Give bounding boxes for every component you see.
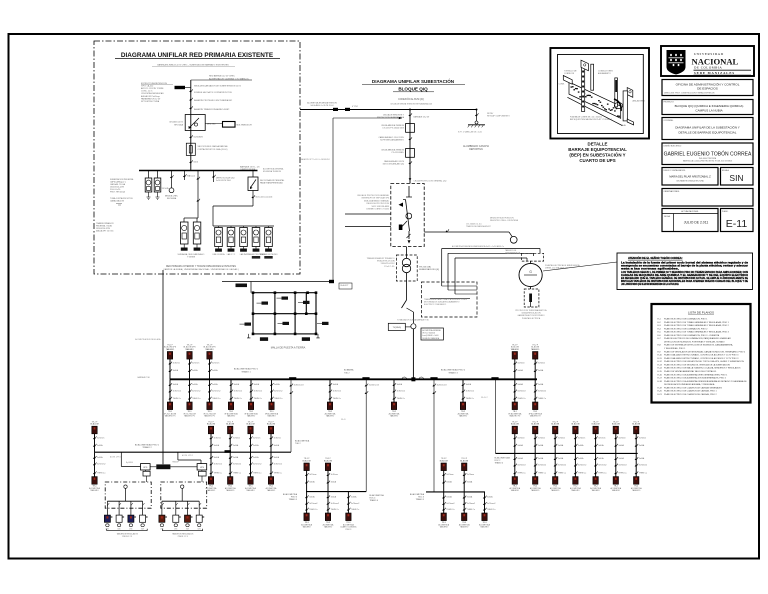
svg-text:MATRICULA CL205-57968 TEL 887: MATRICULA CL205-57968 TEL 887 94 79 CEL … (683, 159, 732, 162)
svg-text:GABINETE AUTOSOPORTADO: GABINETE AUTOSOPORTADO (517, 314, 545, 317)
feeder TGD piso1 drop 5 at x=251 (244, 379, 262, 417)
svg-text:3F+N: 3F+N (341, 419, 346, 421)
feeder TGD piso2 drop 1 at x=330 (325, 379, 341, 417)
svg-text:3x2/0 AWG: 3x2/0 AWG (193, 135, 203, 138)
UPS 2 box (197, 464, 207, 470)
title RED PRIMARIA EXISTENTE (115, 52, 280, 67)
svg-text:3x70mm2: 3x70mm2 (253, 464, 261, 466)
bus1 tap marks (289, 377, 296, 380)
svg-text:PLANO ELECTRICO DE TOMAS GENER: PLANO ELECTRICO DE TOMAS GENERALES Y REG… (664, 324, 730, 327)
svg-text:3x70mm2: 3x70mm2 (192, 391, 200, 393)
feeder TGD2 column 3 at x=230.2 (225, 421, 241, 492)
svg-text:DE REGULACION UNIDADES AISLANA: DE REGULACION UNIDADES AISLANA, Y REGULA… (664, 383, 715, 386)
svg-text:3x70mm2: 3x70mm2 (351, 503, 359, 505)
transfer wires inside TGD box (442, 285, 477, 287)
svg-text:TABLERO: TABLERO (227, 415, 236, 418)
regulated panel UPS L-2 (116, 501, 124, 530)
svg-text:THHN Cu: THHN Cu (234, 398, 242, 400)
right-side feeder labels (194, 85, 242, 112)
bus for transformer group 2 (213, 205, 253, 207)
svg-text:TR-3 P: TR-3 P (304, 458, 310, 460)
wire: main MV feeder drop (box B) (190, 80, 192, 171)
svg-text:CORTACIRCUITOS 100A (15 kV): CORTACIRCUITOS 100A (15 kV) (198, 148, 228, 151)
svg-text:3x60A: 3x60A (212, 383, 218, 386)
feeder ROC2 lower column 3 at x=555.2 (550, 421, 566, 492)
recloser box (NORMA ESSA) (169, 115, 205, 131)
UPS input boxes (121, 452, 201, 466)
svg-text:3x60A: 3x60A (578, 444, 584, 447)
svg-text:3x60A: 3x60A (466, 383, 472, 386)
svg-text:3x70mm: 3x70mm (578, 437, 586, 439)
svg-text:kWh: kWh (186, 528, 189, 530)
svg-text:PLANO ELECTRICO DE UBICACION D: PLANO ELECTRICO DE UBICACION DEL TOPOLOG… (664, 360, 744, 363)
wire to metering CT circle (424, 231, 509, 233)
title block: proyecto box (662, 100, 753, 115)
svg-text:RED PRIMARIA INTERIOR Y TRANSF: RED PRIMARIA INTERIOR Y TRANSFORMADORES … (166, 265, 236, 268)
svg-text:TABLERO: TABLERO (324, 526, 333, 529)
UN crest (667, 50, 686, 75)
svg-text:OBSERVACIONES:: OBSERVACIONES: (664, 190, 680, 193)
svg-text:TR-1 P: TR-1 P (187, 344, 193, 346)
title block: diseno box (662, 143, 753, 165)
transformer T-EX1 (145, 171, 152, 200)
transformer T-EX2 (154, 171, 161, 200)
switchgear left wires (345, 213, 391, 215)
svg-text:TRAMO 2: TRAMO 2 (142, 446, 152, 449)
svg-text:3x60A: 3x60A (253, 456, 259, 459)
svg-text:LAB 1 Y 2: LAB 1 Y 2 (227, 253, 235, 256)
svg-text:PLANO ELECTRICO DE MALLA Y AND: PLANO ELECTRICO DE MALLA Y ANDEN, LOCALI… (664, 367, 741, 370)
svg-text:PLANTA ELECTRICA: PLANTA ELECTRICA (522, 317, 541, 320)
svg-text:THHN Cu: THHN Cu (578, 472, 586, 474)
svg-text:TR-2 P: TR-2 P (633, 421, 639, 423)
svg-text:CONTIENE:: CONTIENE: (664, 120, 674, 122)
svg-text:TABLERO: TABLERO (460, 526, 469, 529)
svg-text:DETALLE: DETALLE (588, 142, 608, 147)
switchgear dashed cell (391, 184, 424, 247)
svg-text:PLANO ELECTRICO DE SEGUNDOS, V: PLANO ELECTRICO DE SEGUNDOS, VENTILAS DE… (664, 363, 730, 366)
bracket under UPS R (162, 529, 202, 538)
regulated panel UPS R-1 (159, 501, 167, 530)
svg-text:PLANO DE VENTAS AMBIENTAL TALL: PLANO DE VENTAS AMBIENTAL TALLS DEL PORT… (664, 370, 717, 373)
svg-text:kWh: kWh (129, 528, 132, 530)
svg-text:3x70mm: 3x70mm (192, 363, 200, 365)
svg-text:TR-2 P: TR-2 P (613, 421, 619, 423)
svg-text:TGD 2: TGD 2 (295, 443, 301, 445)
svg-text:TRANSFERENCIA AUTOMATICA INTER: TRANSFERENCIA AUTOMATICA INTERRUPTORES (424, 298, 468, 301)
feeder TGD piso2 drop 2 at x=394 (389, 379, 405, 417)
feeder ROC2 lower column 5 at x=595.6 (590, 421, 606, 492)
bus2 ROC2 tramo 4 (496, 452, 638, 454)
svg-text:TABLERO: TABLERO (511, 489, 520, 492)
svg-text:3x60A: 3x60A (173, 383, 179, 386)
svg-text:THHN Cu: THHN Cu (254, 398, 262, 400)
svg-text:PLANO DIALIZADO ESTRUCTURADO,: PLANO DIALIZADO ESTRUCTURADO, CONTROL DE… (664, 357, 739, 360)
svg-text:TABLERO: TABLERO (326, 415, 335, 418)
svg-text:BL/ACOMETIDA: BL/ACOMETIDA (295, 440, 310, 443)
svg-text:3x60A: 3x60A (331, 481, 337, 484)
svg-text:TRAFOS DE MEDIDA EN BT: TRAFOS DE MEDIDA EN BT (466, 225, 492, 228)
svg-text:PISO 3: PISO 3 (346, 529, 352, 531)
svg-text:TABLERO P2: TABLERO P2 (530, 415, 541, 418)
svg-text:TABLERO: TABLERO (571, 489, 580, 492)
svg-text:ACOM. UPS 2: ACOM. UPS 2 (182, 454, 193, 457)
svg-text:SUBESTACION QIQ: SUBESTACION QIQ (419, 268, 439, 271)
svg-text:TRANSF BIOTECNO: TRANSF BIOTECNO (260, 253, 278, 256)
transformer group2 unit 4 (TRANSF PROCESOS) (247, 226, 267, 259)
svg-text:SUB ALBA, SUB CANCHAS 1: SUB ALBA, SUB CANCHAS 1 (178, 253, 206, 256)
svg-text:PLANO ELECTRICO DE CUADROS DE: PLANO ELECTRICO DE CUADROS DE CARGAS, PI… (664, 390, 717, 393)
svg-text:TABLERO: TABLERO (440, 526, 449, 529)
title block: dibujo box (662, 168, 718, 186)
svg-text:UPS: UPS (143, 467, 148, 469)
drop labels (212, 171, 235, 183)
svg-text:3x70mm: 3x70mm (598, 437, 606, 439)
svg-text:CELDA DE MEDIA TENSION ENTRADA: CELDA DE MEDIA TENSION ENTRADA/SALIDA (390, 103, 432, 106)
svg-text:BL/ACOMETIDA: BL/ACOMETIDA (283, 493, 298, 496)
svg-text:PLANTA ELECTRICA DE EMERGENCIA: PLANTA ELECTRICA DE EMERGENCIA (545, 264, 580, 267)
svg-text:3x70mm2: 3x70mm2 (212, 391, 220, 393)
svg-text:3x70mm: 3x70mm (253, 437, 261, 439)
svg-text:3x60A: 3x60A (274, 444, 280, 447)
transformer labels (367, 257, 440, 271)
svg-text:ACOMETIDA GENERAL: ACOMETIDA GENERAL (422, 329, 441, 332)
svg-text:PLANO ELECTRICO DE TOMAS GENER: PLANO ELECTRICO DE TOMAS GENERALES Y REG… (664, 321, 730, 324)
riser red primaria to UPS (162, 270, 164, 464)
svg-text:SF6 630A: SF6 630A (174, 123, 184, 126)
UPS bypass small boxes (143, 470, 150, 482)
svg-text:DIAGRAMA UNIFILAR SUBESTACIÓN: DIAGRAMA UNIFILAR SUBESTACIÓN (372, 77, 455, 84)
svg-text:3x70mm2: 3x70mm2 (331, 503, 339, 505)
svg-text:ELECTRICO Y MECANICO: ELECTRICO Y MECANICO (424, 303, 447, 306)
svg-text:kWh: kWh (106, 528, 109, 530)
wire: MV acometida from red primaria to QIQ (300, 109, 477, 111)
svg-text:AISLAMIENTO: AISLAMIENTO (598, 72, 611, 75)
svg-text:3x60A: 3x60A (274, 456, 280, 459)
regulated panel UPS L-1 (104, 501, 112, 530)
branch: alumbrado cancha deportiva (458, 110, 510, 152)
transfer tablero dashed box (521, 253, 543, 261)
svg-text:PLANO DIALIZADO ESTRUCTURADO,: PLANO DIALIZADO ESTRUCTURADO, CONTROL DE… (664, 354, 739, 357)
feeder ROC2 upper column 1 at x=514.8 (508, 344, 526, 417)
right sectionalizer box (248, 171, 284, 207)
svg-text:PISOS 1 2 3: PISOS 1 2 3 (122, 536, 132, 538)
svg-text:3x60A: 3x60A (467, 481, 473, 484)
feeder ROC3 column 1 at x=443.7 (438, 458, 454, 528)
svg-text:PLANO ELECTRICO DE ILUMINACION: PLANO ELECTRICO DE ILUMINACION, PISO 2 (664, 327, 708, 330)
svg-text:THHN Cu: THHN Cu (331, 509, 339, 511)
svg-text:15kV 133% AISLAM. QIQ: 15kV 133% AISLAM. QIQ (382, 163, 404, 166)
svg-text:TRAMO 5: TRAMO 5 (416, 498, 424, 501)
svg-text:ACTUALIZACIONES:: ACTUALIZACIONES: (681, 210, 699, 213)
svg-text:BAJANTE PROTEGIDO EN TUBERIA I: BAJANTE PROTEGIDO EN TUBERIA IMC (194, 99, 233, 102)
svg-text:3x70mm: 3x70mm (309, 474, 317, 476)
svg-text:Y SEGURIDAD, PISO 1: Y SEGURIDAD, PISO 1 (664, 347, 686, 350)
svg-text:3x60A: 3x60A (173, 369, 179, 372)
svg-text:TABLERO: TABLERO (207, 489, 216, 492)
svg-text:TABLERO: TABLERO (246, 489, 255, 492)
svg-text:3x70mm: 3x70mm (558, 437, 566, 439)
svg-text:THHN Cu: THHN Cu (214, 472, 222, 474)
dashed tableros regulados box UPS R (161, 482, 207, 508)
svg-text:THHN Cu: THHN Cu (538, 472, 546, 474)
svg-text:3x1/0 XLPE 15kV: 3x1/0 XLPE 15kV (216, 180, 232, 182)
BEP labels (559, 71, 646, 128)
svg-text:3x60A: 3x60A (558, 457, 564, 460)
svg-text:MED. IND: MED. IND (207, 124, 216, 126)
svg-text:3x800A REGULACION: 3x800A REGULACION (521, 312, 541, 315)
svg-text:CELDA PROTECCION GENERAL QIQ: CELDA PROTECCION GENERAL QIQ (414, 180, 447, 183)
svg-text:3x70mm2: 3x70mm2 (254, 391, 262, 393)
svg-text:kWh: kWh (160, 528, 163, 530)
svg-text:SEDE MANIZALES: SEDE MANIZALES (694, 71, 735, 75)
svg-text:THHN Cu: THHN Cu (446, 509, 454, 511)
svg-text:kWh: kWh (141, 528, 144, 530)
svg-text:3x70mm2: 3x70mm2 (538, 465, 546, 467)
svg-text:3x70mm: 3x70mm (618, 437, 626, 439)
svg-text:3x60A: 3x60A (558, 444, 564, 447)
svg-text:3x70mm2: 3x70mm2 (517, 391, 525, 393)
svg-text:3x70mm2: 3x70mm2 (173, 391, 181, 393)
svg-text:3x70mm: 3x70mm (517, 437, 525, 439)
feeder ROC2 lower column 4 at x=575.4 (570, 421, 586, 492)
UPS interconnect labels (110, 454, 193, 459)
svg-text:TR-1 P: TR-1 P (208, 421, 214, 423)
feeder TGD2 column 5 at x=271 (266, 421, 282, 492)
bonding run to malla (222, 281, 333, 283)
regulated panel UPS R-4 (196, 501, 204, 530)
svg-text:GABRIEL EUGENIO TOBÓN CORREA: GABRIEL EUGENIO TOBÓN CORREA (664, 151, 752, 158)
feeder ROC2 lower column 7 at x=636.2 (631, 421, 647, 492)
svg-text:3x60A: 3x60A (233, 444, 239, 447)
svg-text:TRAMO 5: TRAMO 5 (289, 498, 297, 501)
svg-text:UPS: UPS (200, 467, 205, 469)
svg-text:TRAMO 6: TRAMO 6 (370, 499, 378, 502)
disconnect ticks on feeder (191, 89, 193, 92)
svg-text:PLANO ELECTRICO DE ALIMENTACIO: PLANO ELECTRICO DE ALIMENTACION SUBGENER… (664, 377, 727, 380)
svg-text:RETILAP CUMPLIMIENTO: RETILAP CUMPLIMIENTO (487, 115, 510, 118)
svg-text:3x60A: 3x60A (234, 383, 240, 386)
svg-text:LOS LABORATORIOS QUE SE ESTAN: LOS LABORATORIOS QUE SE ESTAN MODERNIZAN… (621, 283, 679, 286)
BEP busbar isometric (563, 60, 633, 125)
svg-text:ACOMETIDA RED REGULADA: ACOMETIDA RED REGULADA (135, 338, 161, 341)
svg-text:TR-1 P: TR-1 P (92, 421, 98, 423)
svg-text:TABLERO: TABLERO (632, 489, 641, 492)
svg-text:TR-2 P: TR-2 P (532, 421, 538, 423)
svg-text:PARARRAYOS 12 kV: PARARRAYOS 12 kV (141, 97, 161, 100)
svg-text:3x60A: 3x60A (598, 444, 604, 447)
sub bus TGD2 (95, 451, 292, 453)
svg-text:3x70mm: 3x70mm (538, 437, 546, 439)
breaker inside switchgear (399, 186, 413, 244)
svg-text:TV(GND): TV(GND) (393, 327, 402, 329)
title block: fecha box (662, 209, 718, 232)
svg-text:MALLA DE PUESTA A TIERRA: MALLA DE PUESTA A TIERRA (271, 346, 306, 349)
svg-text:BARRAJE/LINEA 13,2 kV CHEC - S: BARRAJE/LINEA 13,2 kV CHEC - SUBESTACION… (157, 64, 229, 67)
svg-text:50/51 50N/51N ANSI: 50/51 50N/51N ANSI (371, 205, 389, 208)
svg-text:TIPO: LA-212: TIPO: LA-212 (141, 85, 154, 88)
title DIAGRAMA UNIFILAR SUBESTACION BLOQUE QIQ (362, 77, 465, 92)
svg-text:SEDA DESCARGADOR DE SOBRETENSI: SEDA DESCARGADOR DE SOBRETENSION 12 kV (194, 85, 242, 88)
lista de planos box (652, 304, 751, 403)
transformer group2 unit 2 (LAB 1 Y 2) (227, 226, 235, 256)
svg-text:S.P.T. 2 VARILLAS 5/8 x 2,4m: S.P.T. 2 VARILLAS 5/8 x 2,4m (458, 131, 482, 134)
svg-text:TABLEROS REGULADOS: TABLEROS REGULADOS (117, 532, 139, 535)
svg-text:3x60A: 3x60A (639, 444, 645, 447)
svg-text:PLANO ELECTRICO DE ILUMINACION: PLANO ELECTRICO DE ILUMINACION, PISO 1 (664, 318, 708, 321)
left bottom labels (96, 222, 114, 233)
svg-text:TABLERO: TABLERO (612, 489, 621, 492)
svg-text:JULIO DE 2.011: JULIO DE 2.011 (684, 221, 709, 225)
svg-text:TABLERO P1: TABLERO P1 (204, 415, 215, 418)
svg-text:3x70mm2: 3x70mm2 (487, 503, 495, 505)
svg-text:3x250 kcmil: 3x250 kcmil (369, 385, 380, 387)
svg-text:MEDIDOR MULTIFUNCION: MEDIDOR MULTIFUNCION (490, 218, 514, 220)
svg-text:TABLERO: TABLERO (551, 489, 560, 492)
bracket under UPS L (107, 529, 148, 538)
svg-text:TABLERO P1: TABLERO P1 (184, 415, 195, 418)
svg-text:REGISTRO CREG - FRONTERA: REGISTRO CREG - FRONTERA (490, 219, 519, 222)
svg-text:TABLERO: TABLERO (459, 415, 468, 418)
svg-text:3x60A: 3x60A (253, 444, 259, 447)
svg-text:4” PVC: 4” PVC (352, 106, 359, 108)
svg-text:3x70mm2: 3x70mm2 (466, 391, 474, 393)
regulated panel UPS L-3 (128, 501, 136, 530)
svg-text:CAMPUS NUBIA: CAMPUS NUBIA (240, 168, 256, 171)
svg-text:ESTRUCTURA RETENCION: ESTRUCTURA RETENCION (141, 82, 167, 85)
svg-text:TRANSF: TRANSF (172, 461, 179, 464)
svg-text:3x60A: 3x60A (467, 496, 473, 499)
feeder TGD piso1 column 1 at x=170 (164, 344, 181, 417)
malla riser (250, 282, 252, 293)
svg-text:BARRAJE 13,2 kV: BARRAJE 13,2 kV (414, 116, 430, 119)
svg-text:TR-3 P: TR-3 P (461, 458, 467, 460)
svg-text:3x70mm2: 3x70mm2 (578, 465, 586, 467)
svg-text:3x60A: 3x60A (487, 496, 493, 499)
metering cell box 2 (406, 149, 415, 158)
svg-text:TR-2 P: TR-2 P (552, 421, 558, 423)
svg-text:THHN Cu: THHN Cu (274, 472, 282, 474)
feeder TGD2 column 2 at x=211 (206, 421, 222, 492)
malla de puesta a tierra grid (240, 291, 329, 341)
svg-text:PARA TRANSFERENCIAS: PARA TRANSFERENCIAS (260, 182, 283, 185)
svg-text:3x70mm: 3x70mm (331, 474, 339, 476)
main QIQ feeder drop (409, 110, 411, 184)
svg-text:TABLERO: TABLERO (267, 489, 276, 492)
svg-text:TR-1 P: TR-1 P (227, 421, 233, 423)
svg-text:3x70mm2: 3x70mm2 (618, 465, 626, 467)
node: CONEXION AL BUS QIQ (390, 98, 432, 106)
svg-text:TR-1 P: TR-1 P (248, 421, 254, 423)
regulated panel UPS R-2 (173, 501, 181, 530)
svg-text:3x70mm: 3x70mm (214, 437, 222, 439)
svg-text:TR 225 kVA: TR 225 kVA (419, 266, 431, 269)
group1 label (283, 493, 298, 501)
svg-text:THHN Cu: THHN Cu (233, 472, 241, 474)
svg-text:3x1/0: 3x1/0 (193, 161, 198, 163)
logo text (692, 52, 752, 75)
svg-text:SIN: SIN (729, 173, 743, 183)
svg-text:TRANSFERENCIA: TRANSFERENCIA (505, 252, 521, 255)
BEP detail box frame (550, 48, 649, 139)
dashed boundary: DIAGRAMA UNIFILAR RED PRIMARIA EXISTENTE (94, 41, 300, 274)
CT metering circle (510, 236, 517, 243)
svg-text:BAJANTE TRANSICION AEREO-SUBT.: BAJANTE TRANSICION AEREO-SUBT. (194, 108, 230, 111)
feeder down to TGD bus (412, 329, 414, 379)
svg-text:PISOS 1 2 3: PISOS 1 2 3 (178, 536, 188, 538)
svg-text:3x60A: 3x60A (517, 383, 523, 386)
svg-text:3x60A: 3x60A (351, 495, 357, 498)
svg-text:3x70mm2: 3x70mm2 (517, 465, 525, 467)
svg-text:DISPARO LIBRE CT 300/5: DISPARO LIBRE CT 300/5 (366, 208, 389, 211)
svg-text:ACOM. UPS 1: ACOM. UPS 1 (110, 456, 121, 459)
transferencia black box (156, 464, 170, 469)
svg-text:TABLERO: TABLERO (591, 489, 600, 492)
svg-text:TABLERO: TABLERO (531, 489, 540, 492)
svg-text:TABLERO: TABLERO (90, 489, 99, 492)
svg-text:SECCION BUS CARGA PARCIAL: SECCION BUS CARGA PARCIAL (198, 145, 229, 148)
node: bus barra 13,2 kV label (209, 75, 250, 81)
svg-text:BL/ACOMETIDAS PISO 1: BL/ACOMETIDAS PISO 1 (234, 367, 259, 370)
svg-text:3x60A: 3x60A (254, 383, 260, 386)
drop kiosko (183, 171, 195, 181)
feeder ROC2 lower column 1 at x=514.8 (509, 421, 525, 492)
svg-text:TR-3 P: TR-3 P (325, 458, 331, 460)
svg-text:XLPE NIVEL AISLAMIENTO: XLPE NIVEL AISLAMIENTO (380, 139, 404, 142)
svg-text:kWh: kWh (198, 528, 201, 530)
svg-text:THHN Cu: THHN Cu (192, 398, 200, 400)
box B bottom caption (163, 265, 239, 271)
svg-text:BARRAJE EQUIPOTENCIAL: BARRAJE EQUIPOTENCIAL (568, 147, 627, 152)
svg-text:PLANO ELECTRICO DE CUADROS DE: PLANO ELECTRICO DE CUADROS DE CARGAS GEN… (664, 386, 722, 389)
subbusA tap mark (225, 450, 231, 453)
ROC3 sub bus (426, 491, 485, 493)
svg-text:3x70mm: 3x70mm (212, 363, 220, 365)
metering cell box 1 (406, 124, 415, 133)
svg-text:MARIA DEL PILAR ARISTIZABAL Z: MARIA DEL PILAR ARISTIZABAL Z (669, 175, 711, 179)
transformer group2 unit 5 (TRANSF BIOTECNO) (260, 226, 278, 259)
svg-text:PLANO ELECTRICO DE ALIMENTADOR: PLANO ELECTRICO DE ALIMENTADORES/SUBGENE… (664, 380, 747, 383)
switchgear left label block (357, 194, 390, 211)
svg-text:3x70mm: 3x70mm (97, 437, 105, 439)
transformer group SUB ALBA unit 1 (181, 218, 199, 251)
svg-text:3x70mm: 3x70mm (538, 363, 546, 365)
svg-text:INTERRUPTOR TRIPOLAR SF6: INTERRUPTOR TRIPOLAR SF6 (361, 197, 389, 200)
svg-text:3x60A: 3x60A (538, 369, 544, 372)
svg-text:DEPORTIVA: DEPORTIVA (469, 148, 483, 151)
svg-text:CELDA DE PROTECCION GENERAL: CELDA DE PROTECCION GENERAL (357, 194, 389, 197)
svg-text:3x60A: 3x60A (538, 383, 544, 386)
svg-text:3x60A: 3x60A (212, 369, 218, 372)
svg-text:3x60A: 3x60A (309, 495, 315, 498)
arrow into switchgear (409, 178, 412, 181)
svg-text:MALLA SPT 10 Ohm: MALLA SPT 10 Ohm (96, 230, 114, 233)
svg-text:RED AEREA 13,2 kV CHEC: RED AEREA 13,2 kV CHEC (209, 75, 235, 78)
svg-text:TABLERO: TABLERO (302, 526, 311, 529)
svg-text:AISLADORES: AISLADORES (633, 100, 646, 103)
svg-text:SPT ESTRUCTURA: SPT ESTRUCTURA (141, 100, 160, 103)
svg-text:PLANO ELECTRICO DE TOMAS GENER: PLANO ELECTRICO DE TOMAS GENERALES Y REG… (664, 331, 730, 334)
svg-text:TGD 2: TGD 2 (344, 372, 350, 374)
feeder TGD piso2 drop 3 at x=463 (458, 379, 474, 417)
svg-text:3x60A: 3x60A (446, 481, 452, 484)
svg-text:DE ESPACIOS: DE ESPACIOS (697, 87, 718, 91)
svg-text:3x70mm2: 3x70mm2 (309, 503, 317, 505)
MV bus (box B) (139, 170, 258, 172)
svg-text:3x60A: 3x60A (214, 456, 220, 459)
TV GND box (388, 323, 411, 330)
svg-text:3x70mm2: 3x70mm2 (97, 464, 105, 466)
